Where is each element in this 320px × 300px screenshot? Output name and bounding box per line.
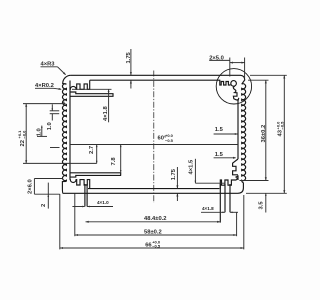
dim 3.5 bottom right [265, 193, 267, 212]
svg-text:4×1.0: 4×1.0 [97, 200, 109, 205]
top-right screw boss (magnified in detail circle) [220, 80, 231, 85]
svg-text:3.5: 3.5 [259, 201, 265, 210]
dim 48.4 +-0.2 [86, 221, 221, 223]
dim 43 +0.0 -0.5 right [250, 74, 287, 76]
slot in bottom wall right (4x1.8) [219, 184, 221, 223]
dim 1.0 pair left [50, 110, 60, 112]
dim 66 +0.0 -0.5 [59, 194, 61, 249]
screw hole in top-right boss [231, 81, 237, 87]
slot in bottom wall (4x1.0) [84, 184, 86, 207]
top-left screw boss [70, 80, 90, 89]
dim 2x6.0 left [34, 178, 62, 180]
bottom-right screw boss [220, 176, 238, 189]
dim 60 deg line [70, 144, 238, 146]
right wall outer fins [242, 84, 246, 182]
svg-text:36±0.2: 36±0.2 [261, 125, 267, 143]
lower PCB rail on left wall [70, 173, 121, 177]
dim 4x1.8 top [72, 88, 112, 90]
svg-text:−0.0: −0.0 [21, 130, 26, 139]
outer outline of extrusion profile [71, 75, 245, 84]
bottom-left screw boss [70, 180, 90, 189]
svg-text:4×1.8: 4×1.8 [103, 106, 109, 121]
vertical centerline [153, 71, 155, 204]
detail circle [216, 69, 251, 104]
svg-text:2: 2 [41, 204, 47, 207]
svg-text:22: 22 [20, 140, 26, 146]
svg-text:58±0.2: 58±0.2 [144, 229, 162, 235]
svg-text:2×6.0: 2×6.0 [28, 179, 34, 194]
dim 58 +-0.2 [74, 194, 76, 237]
dim 22 +0.1-0.0 left [23, 103, 66, 105]
right wall inner face [237, 99, 239, 159]
svg-text:4×1.5: 4×1.5 [188, 159, 194, 174]
svg-text:−0.5: −0.5 [280, 121, 285, 130]
svg-text:−0.5: −0.5 [152, 244, 161, 249]
svg-text:1.5: 1.5 [215, 127, 224, 133]
svg-text:−0.5: −0.5 [165, 138, 174, 143]
top wall inner line [90, 79, 221, 81]
left wall outer fins [63, 84, 67, 182]
dim 7.8 [120, 145, 122, 175]
right wall inner rib [233, 159, 238, 175]
upper PCB rail on left wall [70, 92, 113, 96]
left wall inner face [69, 81, 71, 180]
svg-text:2.7: 2.7 [89, 146, 95, 154]
svg-text:48.4±0.2: 48.4±0.2 [144, 216, 167, 222]
svg-text:1.5: 1.5 [215, 152, 224, 158]
svg-text:1.75: 1.75 [171, 168, 177, 180]
svg-text:1.0: 1.0 [47, 122, 53, 130]
svg-text:7.8: 7.8 [111, 157, 117, 166]
bottom wall inner line [88, 188, 219, 190]
dim 36 +-0.2 right [248, 79, 269, 81]
dim 2.7 [96, 145, 98, 164]
svg-text:4×1.8: 4×1.8 [202, 206, 214, 211]
svg-text:1.0: 1.0 [37, 128, 43, 136]
